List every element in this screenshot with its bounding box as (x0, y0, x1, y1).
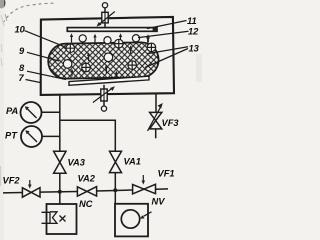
svg-text:VA1: VA1 (124, 157, 141, 167)
svg-text:VF1: VF1 (158, 169, 175, 179)
scan noise left edge marks (1, 14, 7, 186)
NV inner circle (121, 210, 139, 228)
svg-text:VF3: VF3 (162, 118, 180, 128)
wire: bottom main pipe (3, 189, 168, 193)
valve VF1 (133, 185, 144, 194)
svg-text:8: 8 (19, 63, 25, 73)
pressure gauge PT (21, 126, 42, 147)
wire: left main pipe from box bottom to VA3 (59, 95, 61, 152)
svg-text:NV: NV (152, 197, 166, 207)
VF2 inlet down-arrow (29, 180, 31, 186)
svg-text:9: 9 (19, 46, 25, 56)
NV leader arrow (144, 212, 152, 217)
leader line 13b (145, 49, 188, 68)
valve VF2 (22, 188, 31, 197)
plain bubbles inside vessel (63, 60, 72, 69)
NC inner cross (60, 216, 66, 222)
svg-text:VA3: VA3 (68, 158, 86, 168)
leader line 12 (138, 31, 189, 37)
valve VA3 (54, 151, 66, 162)
svg-text:VF2: VF2 (3, 176, 21, 186)
leader line 8 (27, 71, 66, 79)
valve VA2 (77, 187, 87, 196)
wire: junction to NC unit (59, 192, 61, 204)
wire: PT to pipe (42, 135, 60, 137)
wire: branch from left pipe to VA1 column (60, 120, 116, 151)
svg-text:7: 7 (19, 73, 25, 83)
bottom plate (item 8) (69, 76, 149, 85)
NC inner bellows symbol (42, 212, 58, 224)
leader line 13a (147, 47, 188, 54)
scan noise right edge smudge (196, 54, 202, 82)
up-arrows inside vessel (70, 45, 132, 78)
svg-text:PT: PT (5, 131, 18, 141)
bottom throttle valve (adjustable restrictor) (103, 85, 105, 106)
wire: VF3 feed from box bottom (155, 94, 157, 112)
svg-text:12: 12 (188, 27, 199, 37)
scan noise dashed page-curl curve (3, 3, 56, 23)
wire: VA1 to bottom junction (114, 173, 116, 191)
junction node below VA1 (113, 188, 117, 192)
wire: VF3 vent (155, 129, 157, 138)
svg-text:VA2: VA2 (78, 174, 96, 184)
leader line 10 (25, 31, 67, 48)
junction node below VA3 (58, 190, 62, 194)
svg-text:13: 13 (189, 44, 200, 54)
valve VA1 (110, 151, 122, 162)
leader line 7 (26, 80, 41, 83)
svg-text:10: 10 (15, 25, 26, 35)
leader line 9 (27, 52, 59, 61)
valve VF3 (150, 112, 162, 120)
NV unit box (115, 204, 148, 237)
top plate (item 11) (67, 28, 157, 32)
VF1 inlet down-arrow (142, 175, 144, 182)
apparatus body (outer box, item 7) (41, 17, 174, 95)
svg-text:PA: PA (6, 106, 19, 116)
gap bubble row circles (item 12) (79, 35, 86, 42)
gap up-arrows (70, 33, 150, 42)
top throttle valve (adjustable restrictor) (104, 8, 106, 28)
pressure gauge PA (21, 102, 42, 123)
svg-text:11: 11 (187, 16, 197, 26)
leader line 11 (147, 21, 187, 29)
froth vessel (hatched stadium) (48, 42, 159, 79)
mineralized bubbles (item 13, circles with cross) (66, 39, 156, 71)
wire: VA3 to bottom junction (59, 173, 61, 192)
wire: PA to pipe (42, 111, 60, 113)
scan noise top-left blob (0, 0, 6, 9)
svg-text:NC: NC (79, 199, 93, 209)
wire: junction to NV unit (114, 190, 116, 204)
NC unit box (47, 204, 77, 234)
